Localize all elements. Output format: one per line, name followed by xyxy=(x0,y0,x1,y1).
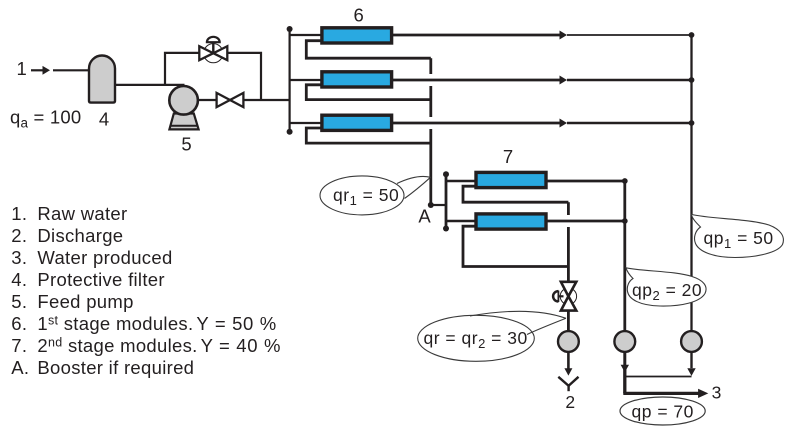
wire stage2 concentrate downcomer with gap xyxy=(567,202,570,281)
node permeate manifold junctions xyxy=(689,32,695,38)
svg-text:Raw water: Raw water xyxy=(37,203,127,224)
wire discharge outlet with arrow xyxy=(564,352,572,376)
wire module 6c feed xyxy=(290,122,321,124)
svg-text:Water produced: Water produced xyxy=(37,247,172,268)
wire module 7a concentrate loop xyxy=(463,186,568,202)
svg-text:4: 4 xyxy=(99,109,109,130)
balloon qp1 = 50 xyxy=(691,214,783,257)
wire bypass loop xyxy=(165,53,261,100)
balloon qr = qr2 = 30 xyxy=(418,311,566,361)
svg-text:6: 6 xyxy=(353,5,363,26)
valve V1 bypass control valve with actuator xyxy=(199,37,227,63)
svg-text:5.: 5. xyxy=(11,291,27,312)
svg-text:qr1 = 50: qr1 = 50 xyxy=(333,185,399,208)
balloon qp2 = 20 xyxy=(626,268,706,306)
meter M2 (stage2 permeate) xyxy=(614,331,635,352)
node junction to stage2 xyxy=(428,202,434,208)
pump P5 (feed pump) xyxy=(169,86,198,129)
wire stage1 concentrate downcomer (with crossover gaps) xyxy=(429,58,432,205)
wire module 6b permeate xyxy=(393,76,692,85)
wire module 6c permeate xyxy=(393,119,692,128)
svg-text:qp = 70: qp = 70 xyxy=(632,402,694,422)
svg-text:3.: 3. xyxy=(11,247,27,268)
wire module 6a concentrate loop xyxy=(306,41,431,59)
svg-text:4.: 4. xyxy=(11,269,27,290)
svg-text:qp2 = 20: qp2 = 20 xyxy=(632,280,702,303)
svg-text:qr = qr2 = 30: qr = qr2 = 30 xyxy=(424,328,528,351)
valve V2 discharge valve xyxy=(217,93,244,107)
module 6c xyxy=(322,115,392,130)
svg-text:5: 5 xyxy=(181,134,191,155)
wire permeate manifold down xyxy=(690,35,692,331)
svg-text:7: 7 xyxy=(503,146,513,167)
balloon qr1 = 50 xyxy=(320,176,431,215)
module 6b xyxy=(322,72,392,87)
node stage2 feed manifold with A booster xyxy=(445,174,448,228)
wire product outlet to node 3 xyxy=(623,389,708,398)
wire module 6b feed xyxy=(290,79,321,81)
svg-text:qp1 = 50: qp1 = 50 xyxy=(704,228,774,251)
meter M1 (concentrate) xyxy=(558,331,579,352)
node stage1 feed manifold xyxy=(289,29,291,132)
wire stage2 permeate to collector xyxy=(621,352,629,393)
wire module 6a permeate xyxy=(393,31,692,40)
svg-text:1.: 1. xyxy=(11,203,27,224)
svg-text:Protective filter: Protective filter xyxy=(37,269,164,290)
svg-text:Discharge: Discharge xyxy=(37,225,123,246)
wire stage2 permeate down xyxy=(623,181,626,331)
wire module 6a feed xyxy=(290,34,321,36)
wire module 7a permeate xyxy=(547,180,625,183)
svg-text:A.: A. xyxy=(11,357,29,378)
drain symbol node 2 xyxy=(558,377,578,391)
svg-text:2.: 2. xyxy=(11,225,27,246)
wire module 7b feed xyxy=(446,220,475,222)
svg-text:A: A xyxy=(418,206,431,227)
meter M3 (stage1 permeate) xyxy=(681,331,702,352)
svg-text:6.: 6. xyxy=(11,313,27,334)
svg-text:Booster if required: Booster if required xyxy=(37,357,194,378)
svg-text:3: 3 xyxy=(712,383,722,403)
wire module 7b concentrate loop xyxy=(463,226,568,266)
balloon qp = 70 xyxy=(620,397,705,425)
wire pump discharge xyxy=(198,99,290,101)
svg-text:1st stage modules.Y = 50 %: 1st stage modules.Y = 50 % xyxy=(37,313,277,334)
module 7b xyxy=(476,214,546,229)
filter F4 (protective filter) xyxy=(89,56,115,103)
wire feed inlet arrow xyxy=(31,66,90,75)
svg-text:2nd stage modules.Y = 40 %: 2nd stage modules.Y = 40 % xyxy=(37,335,281,356)
valve V3 concentrate control valve xyxy=(553,282,577,331)
wire module 6c concentrate loop xyxy=(306,128,431,143)
wire module 6b concentrate loop xyxy=(306,85,431,100)
wire module 7a feed xyxy=(446,180,475,182)
svg-text:Feed pump: Feed pump xyxy=(37,291,133,312)
svg-text:2: 2 xyxy=(565,392,575,412)
svg-text:1: 1 xyxy=(17,58,27,79)
node stage2 permeate junctions xyxy=(622,178,628,184)
module 6a (1st stage) xyxy=(322,28,392,43)
legend list xyxy=(11,203,281,378)
wire collector bar xyxy=(625,376,692,378)
module 7a (2nd stage) xyxy=(476,172,546,187)
wire filter outlet xyxy=(115,84,185,86)
wire stage1 permeate to collector xyxy=(687,352,695,376)
wire module 7b permeate xyxy=(547,220,625,223)
svg-text:7.: 7. xyxy=(11,335,27,356)
